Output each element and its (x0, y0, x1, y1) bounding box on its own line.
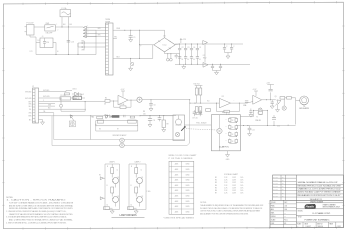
svg-text:C6: C6 (154, 105, 156, 107)
svg-text:R: R (232, 141, 233, 143)
svg-text:YEL: YEL (29, 109, 32, 111)
svg-text:2-14-57: 2-14-57 (273, 189, 278, 191)
svg-text:1 OF 1: 1 OF 1 (337, 226, 341, 228)
svg-text:R: R (131, 185, 132, 187)
svg-text:Q1: Q1 (141, 177, 143, 179)
svg-text:R: R (232, 127, 233, 129)
svg-text:(CLAR POT): (CLAR POT) (219, 145, 229, 148)
svg-text:R9: R9 (167, 124, 169, 126)
svg-text:R7: R7 (117, 128, 119, 130)
svg-text:Heath: Heath (306, 205, 315, 209)
svg-text:R11 R12: R11 R12 (194, 83, 200, 85)
svg-text:2-14-57: 2-14-57 (273, 177, 278, 179)
svg-text:C7: C7 (76, 94, 78, 96)
svg-text:R: R (232, 120, 233, 122)
svg-text:220: 220 (143, 113, 146, 115)
svg-text:117V: 117V (30, 51, 33, 53)
svg-text:RS: RS (284, 223, 286, 225)
svg-text:2. UNLESS NOTED: RESISTOR VAL: 2. UNLESS NOTED: RESISTOR VALUES IN OHMS… (6, 210, 67, 213)
svg-text:.005: .005 (284, 206, 287, 208)
svg-text:Q2: Q2 (141, 196, 143, 198)
svg-text:2.2K: 2.2K (224, 177, 227, 179)
svg-text:2.2K: 2.2K (224, 190, 227, 192)
svg-text:WHT-RED: WHT-RED (25, 92, 31, 94)
svg-text:1/2W: 1/2W (232, 177, 236, 179)
svg-text:40: 40 (193, 59, 195, 61)
svg-text:C12: C12 (277, 126, 280, 128)
svg-text:2-14-57: 2-14-57 (306, 226, 311, 228)
svg-text:J2: J2 (32, 86, 34, 88)
svg-text:WHT: WHT (82, 50, 85, 52)
svg-text:C14: C14 (37, 40, 40, 42)
svg-text:1K: 1K (225, 140, 227, 142)
svg-text:BLU: BLU (29, 106, 32, 108)
svg-text:CORD: CORD (76, 98, 80, 100)
svg-text:BLK: BLK (82, 41, 85, 43)
svg-text:INDICATOR ASSY: INDICATOR ASSY (113, 134, 128, 137)
svg-text:YEL: YEL (114, 37, 117, 39)
svg-text:2.2K: 2.2K (224, 185, 227, 187)
svg-text:STRIP: STRIP (105, 21, 111, 23)
svg-text:J3: J3 (257, 113, 259, 115)
svg-text:AND 12 MEGOHM VTVM, NO SIGNAL: AND 12 MEGOHM VTVM, NO SIGNAL INPUT, LIN… (9, 219, 74, 222)
svg-text:C1: C1 (133, 37, 135, 39)
svg-text:R1: R1 (215, 177, 217, 179)
svg-text:.01: .01 (287, 125, 289, 127)
svg-text:CAPACITOR VALUES IN MICROFARAD: CAPACITOR VALUES IN MICROFARADS. 500 VDC… (9, 213, 74, 216)
svg-text:BLK: BLK (63, 24, 66, 26)
svg-text:1/2W: 1/2W (232, 187, 236, 189)
svg-text:R4: R4 (215, 185, 217, 187)
svg-text:VOLTAGE CHART: VOLTAGE CHART (224, 173, 238, 176)
svg-text:2.2K: 2.2K (224, 180, 227, 182)
svg-text:WHT-GRN: WHT-GRN (25, 98, 31, 100)
svg-text:LAMP 2: LAMP 2 (135, 160, 141, 163)
svg-text:3. VOLTAGES ARE MEASURED WITH: 3. VOLTAGES ARE MEASURED WITH A MULTIMET… (6, 216, 67, 219)
svg-text:TITLE: TITLE (298, 217, 302, 219)
svg-text:IC2: IC2 (222, 96, 225, 98)
svg-text:1/2W: 1/2W (232, 180, 236, 182)
svg-text:2.2K: 2.2K (224, 182, 227, 184)
svg-text:C13: C13 (71, 42, 74, 44)
svg-text:LINE: LINE (76, 96, 79, 98)
svg-text:.01: .01 (42, 36, 44, 38)
svg-text:R22 5K: R22 5K (222, 112, 229, 114)
svg-text:R8: R8 (143, 111, 145, 113)
svg-text:1/2W: 1/2W (232, 193, 236, 195)
svg-text:R16: R16 (244, 105, 247, 107)
svg-text:R6: R6 (99, 128, 101, 130)
svg-text:LAMP 1: LAMP 1 (109, 160, 115, 163)
svg-text:60: 60 (57, 51, 59, 53)
svg-text:DWN: DWN (271, 223, 274, 225)
svg-text:BLK: BLK (29, 119, 32, 121)
svg-text:2.2K: 2.2K (224, 193, 227, 195)
svg-text:ON-OFF: ON-OFF (46, 32, 54, 34)
svg-text:BLK: BLK (70, 24, 73, 26)
svg-text:10: 10 (131, 205, 133, 207)
svg-text:BRN: BRN (29, 116, 32, 118)
svg-text:C5: C5 (199, 47, 201, 49)
svg-text:1/2W: 1/2W (232, 185, 236, 187)
svg-text:R3 1M: R3 1M (120, 104, 125, 106)
svg-text:40: 40 (182, 59, 184, 61)
svg-text:C14: C14 (46, 42, 49, 44)
svg-text:DEC: DEC (284, 202, 287, 204)
svg-text:ORN: ORN (28, 113, 31, 115)
svg-text:2.2K: 2.2K (224, 187, 227, 189)
svg-text:LED1: LED1 (73, 89, 77, 91)
svg-text:10: 10 (107, 205, 109, 207)
svg-text:WHT: WHT (28, 101, 31, 103)
svg-text:FULL SCALE: FULL SCALE (196, 122, 207, 125)
svg-text:R: R (107, 185, 108, 187)
svg-text:1K: 1K (225, 119, 227, 121)
svg-text:40: 40 (199, 59, 201, 61)
svg-text:C8: C8 (153, 120, 155, 122)
svg-text:1/2W: 1/2W (232, 182, 236, 184)
svg-text:GRN: GRN (28, 104, 31, 106)
svg-text:D-1 PHASE CONT.: D-1 PHASE CONT. (313, 212, 331, 215)
svg-text:C11: C11 (252, 129, 255, 131)
svg-text:SERVICING INTERNAL PARTS AND C: SERVICING INTERNAL PARTS AND COMPONENTS … (9, 207, 74, 210)
svg-text:1 W.L.: 1 W.L. (147, 191, 152, 193)
svg-text:40: 40 (187, 59, 189, 61)
svg-text:GRN: GRN (98, 35, 101, 37)
svg-text:2-14-57: 2-14-57 (273, 183, 278, 185)
svg-text:595-114: 595-114 (318, 226, 324, 228)
svg-text:M1: M1 (92, 116, 95, 118)
svg-text:F1 1A: F1 1A (62, 7, 68, 10)
svg-text:R14: R14 (207, 101, 210, 103)
svg-text:FULL: FULL (284, 220, 288, 222)
svg-text:POWER UNIT SCHEMATIC: POWER UNIT SCHEMATIC (305, 219, 331, 222)
svg-text:2-14-57: 2-14-57 (273, 180, 278, 182)
svg-text:P OF THE D SERIES: P OF THE D SERIES (169, 158, 194, 160)
svg-text:MODEL: MODEL (298, 210, 303, 212)
svg-text:GRN: GRN (98, 28, 101, 30)
svg-text:1. CAUTION - SHOCK HAZARD:: 1. CAUTION - SHOCK HAZARD: (6, 199, 67, 202)
svg-text:1/64: 1/64 (284, 209, 287, 211)
svg-text:NOTES:: NOTES: (6, 197, 13, 199)
svg-text:Q1: Q1 (117, 177, 119, 179)
svg-text:D1-4: D1-4 (163, 45, 167, 47)
svg-text:R2: R2 (105, 98, 107, 100)
svg-text:R6: R6 (215, 190, 217, 192)
svg-text:4. SWITCH SHOWN IN FULL COUN: 4. SWITCH SHOWN IN FULL COUNTER-CLOCKWIS… (6, 221, 66, 224)
svg-text:Q2: Q2 (117, 196, 119, 198)
svg-text:2-14-57: 2-14-57 (273, 196, 278, 198)
svg-text:C2: C2 (182, 47, 184, 49)
svg-text:C3: C3 (187, 47, 189, 49)
svg-text:R3: R3 (215, 182, 217, 184)
svg-text:SW1: SW1 (46, 23, 50, 25)
svg-text:LAMP DRIVERS: LAMP DRIVERS (119, 214, 137, 217)
svg-text:R1 10K: R1 10K (61, 95, 67, 97)
svg-text:*LIVE 60V* CONTAINS HAZARDOUS: *LIVE 60V* CONTAINS HAZARDOUS VOLTAGE - … (9, 201, 74, 204)
svg-text:WIRE COLOR CODE CHART: WIRE COLOR CODE CHART (169, 154, 197, 157)
svg-text:R7: R7 (215, 193, 217, 195)
svg-text:DWG NO: DWG NO (317, 223, 322, 225)
svg-text:2-14-57: 2-14-57 (273, 192, 278, 194)
svg-text:C4: C4 (193, 47, 195, 49)
svg-text:7812: 7812 (203, 57, 207, 59)
svg-text:Q5: Q5 (275, 96, 277, 98)
svg-text:R2: R2 (215, 180, 217, 182)
svg-text:R30 1K: R30 1K (256, 120, 262, 122)
svg-text:AND BE SURE COVER SHIELD IS GR: AND BE SURE COVER SHIELD IS GROUNDED BEF… (9, 204, 73, 207)
svg-text:R: R (232, 134, 233, 136)
svg-text:C9 C10: C9 C10 (192, 118, 198, 120)
svg-text:1/2W: 1/2W (232, 190, 236, 192)
svg-text:NOTES:: NOTES: (200, 202, 207, 204)
svg-text:1K: 1K (225, 126, 227, 128)
svg-text:R5: R5 (215, 187, 217, 189)
svg-text:FINISH: FINISH (271, 216, 276, 218)
svg-text:1K: 1K (225, 133, 227, 135)
svg-text:2-14-57: 2-14-57 (273, 186, 278, 188)
svg-text:P1 120V: P1 120V (27, 23, 35, 25)
